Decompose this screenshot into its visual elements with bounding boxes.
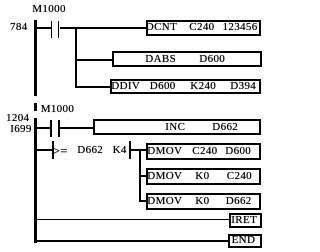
contact M1000 rung 2 right bar [58, 120, 60, 137]
contact M1000 rung 1 right bar [58, 21, 60, 39]
comparison contact text >= D662 K4 [53, 144, 68, 157]
wire rail to IRET box [36, 219, 229, 221]
instruction box DDIV D600 K240 D394 [110, 79, 261, 95]
wire branch to DMOV box 3 [140, 200, 148, 202]
label M1000 (rung 1) [32, 4, 66, 15]
left power rail segment 2 [34, 118, 37, 244]
wire rail to END box [36, 240, 228, 242]
comparison contact left bar [52, 141, 54, 159]
instruction box DMOV K0 C240 [146, 168, 261, 185]
wire branch to DMOV box 2 [140, 175, 148, 177]
contact M1000 rung 2 left bar [50, 120, 52, 137]
label M1000 (rung 2) [41, 104, 75, 115]
instruction box END [228, 234, 262, 249]
wire branch to DABS box [77, 59, 113, 61]
step number I699 [10, 124, 32, 135]
step number 784 [10, 22, 28, 33]
wire comparison contact to DMOV box 1 [131, 149, 147, 151]
wire contact to INC box [60, 127, 94, 129]
branch vertical rung 3 [139, 149, 141, 202]
contact M1000 rung 1 left bar [51, 21, 53, 39]
instruction box DABS D600 [112, 51, 262, 67]
wire rail to contact M1000 rung 1 [36, 27, 51, 29]
instruction box DMOV K0 D662 [146, 193, 261, 210]
wire rail to comparison contact [36, 149, 52, 151]
wire rail to contact M1000 rung 2 [36, 127, 51, 129]
left power rail dash (break) [34, 103, 37, 112]
instruction box INC D662 [93, 119, 261, 136]
comparison contact right bar [129, 141, 131, 159]
instruction box DCNT C240 123456 [146, 20, 261, 36]
instruction box IRET [229, 213, 262, 228]
branch vertical rung 1 [75, 27, 77, 88]
wire contact to DCNT box [60, 27, 147, 29]
step number 1204 [6, 113, 29, 124]
left power rail segment 1 [34, 20, 37, 96]
instruction box DMOV C240 D600 [146, 143, 261, 160]
wire branch to DDIV box [77, 86, 111, 88]
